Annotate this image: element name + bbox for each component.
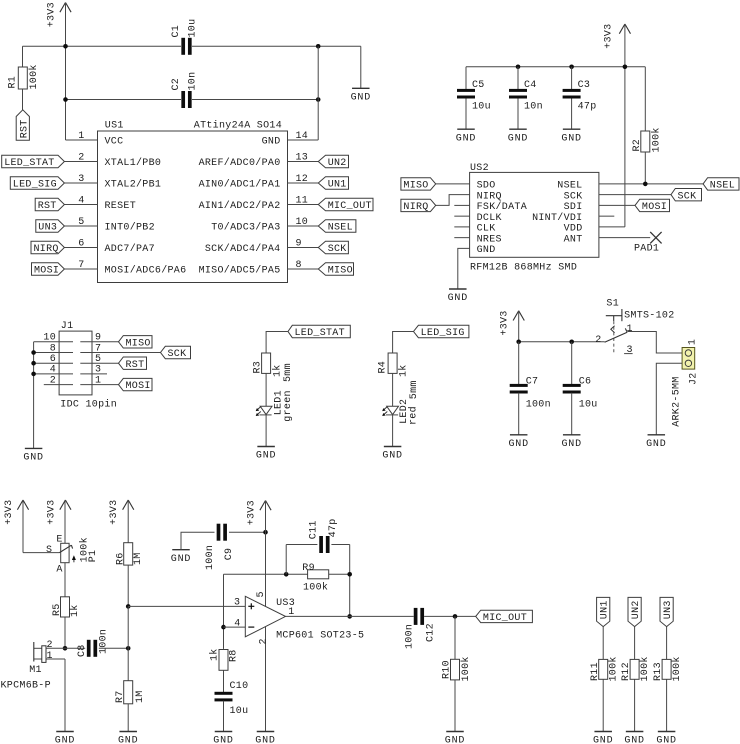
svg-text:R6: R6 [116, 552, 127, 565]
svg-text:GND: GND [656, 736, 676, 744]
svg-text:100n: 100n [404, 624, 415, 649]
svg-text:P1: P1 [88, 550, 99, 563]
wire C10 to ground [223, 701, 225, 732]
svg-text:+3V3: +3V3 [47, 2, 58, 27]
svg-text:GND: GND [448, 293, 468, 304]
svg-text:NIRQ: NIRQ [34, 244, 59, 255]
svg-text:SCK: SCK [678, 191, 697, 202]
svg-text:RST: RST [38, 201, 57, 212]
net flag NIRQ (US2 NIRQ) [436, 195, 470, 206]
wire R13 to ground [666, 679, 668, 731]
junction [221, 625, 226, 630]
svg-text:C11: C11 [308, 520, 319, 539]
net flag LED_SIG (R4 top) [414, 325, 469, 337]
wire +3V3 to US3 pin5 [265, 532, 267, 606]
svg-text:SCK: SCK [328, 244, 347, 255]
svg-text:+3V3: +3V3 [500, 310, 511, 335]
wire LED_SIG to R4 [393, 332, 414, 354]
ground [457, 128, 475, 130]
resistor R6 1M [124, 543, 133, 565]
net flag NSEL (US2) [599, 183, 703, 185]
svg-text:SDO: SDO [477, 181, 496, 192]
wire R3 to LED1 [265, 373, 267, 406]
svg-text:+3V3: +3V3 [46, 500, 57, 525]
junction [316, 97, 321, 102]
svg-text:RFM12B 868MHz SMD: RFM12B 868MHz SMD [470, 262, 577, 273]
ground [119, 731, 137, 733]
svg-text:R5: R5 [52, 603, 63, 616]
svg-text:AREF/ADC0/PA0: AREF/ADC0/PA0 [199, 157, 281, 169]
svg-text:GND: GND [593, 736, 613, 744]
junction [284, 572, 289, 577]
wire LED_STAT to R3 [266, 332, 288, 354]
svg-text:LED_SIG: LED_SIG [13, 180, 57, 191]
svg-text:3: 3 [234, 598, 240, 609]
wire S1 pin3 stub [624, 353, 633, 355]
ground (C9) [172, 549, 190, 551]
svg-text:10u: 10u [472, 102, 491, 113]
junction [126, 646, 131, 651]
wire US2 GND pin to ground [458, 248, 470, 289]
svg-text:C5: C5 [472, 80, 485, 91]
svg-text:R10: R10 [442, 660, 453, 679]
svg-text:GND: GND [508, 133, 528, 144]
net flag MOSI (J1 pin1) [80, 384, 118, 386]
ground [658, 731, 676, 733]
wire VCC pin1 [66, 139, 98, 141]
svg-text:C6: C6 [579, 377, 592, 388]
svg-text:US1: US1 [105, 121, 124, 132]
svg-text:US2: US2 [470, 163, 489, 174]
wire unconnected stub NRES [454, 237, 469, 239]
svg-text:VCC: VCC [105, 137, 124, 148]
net flag RST (US1 pin4) [64, 204, 97, 206]
svg-text:1: 1 [627, 324, 633, 335]
svg-text:R3: R3 [252, 361, 263, 374]
resistor R9 100k [308, 570, 329, 579]
wire J1 pin10 [34, 341, 73, 343]
svg-text:R11: R11 [590, 662, 601, 681]
svg-text:R8: R8 [228, 649, 239, 662]
antenna pad PAD1 [650, 232, 661, 244]
svg-text:10u: 10u [187, 19, 198, 38]
IC US1 ATtiny24A SO14 [98, 131, 288, 283]
wire J1 ground bus [33, 342, 35, 449]
power +3V3 net (P1 S wiper) [17, 500, 23, 510]
wire S1 pin1 to J2 [628, 332, 682, 354]
wire R10 to ground [454, 680, 456, 732]
junction [643, 182, 648, 187]
svg-text:C8: C8 [77, 644, 88, 657]
net flag SCK (US1 pin9) [288, 247, 319, 249]
junction [569, 340, 574, 345]
junction [623, 65, 628, 70]
wire feedback top [224, 573, 308, 575]
svg-text:10n: 10n [187, 72, 198, 91]
wire GND pin14 [317, 46, 319, 140]
wire US3 output [286, 615, 414, 617]
svg-text:UN1: UN1 [328, 180, 347, 191]
capacitor C8 100n [65, 647, 85, 649]
svg-text:A: A [56, 564, 62, 575]
svg-text:GND: GND [213, 736, 233, 744]
svg-text:green: green [283, 390, 294, 422]
wire P1 to R5 [64, 563, 66, 597]
svg-text:MIC_OUT: MIC_OUT [328, 201, 372, 212]
svg-text:LED_STAT: LED_STAT [295, 328, 345, 339]
wire +3V3 bus (US2 decoupling) [466, 66, 645, 68]
svg-text:UN3: UN3 [663, 600, 674, 619]
svg-text:SCK: SCK [168, 349, 187, 360]
svg-text:R7: R7 [115, 690, 126, 703]
svg-text:C1: C1 [171, 25, 182, 38]
svg-text:+3V3: +3V3 [109, 500, 120, 525]
svg-text:5mm: 5mm [409, 380, 420, 399]
ground [626, 731, 644, 733]
svg-text:GND: GND [23, 453, 43, 464]
wire J1 pin3 stub [80, 373, 107, 375]
wire +3V3 to switch [519, 341, 605, 343]
ground [25, 447, 42, 449]
wire R8 to C10 [223, 670, 225, 692]
resistor R13 100k [662, 659, 671, 679]
ground [449, 288, 467, 290]
svg-text:NSEL: NSEL [557, 181, 582, 192]
power +3V3 net (P1 E) [60, 500, 66, 510]
svg-text:100k: 100k [28, 64, 40, 89]
wire unconnected stub NINT/VDI [599, 215, 614, 217]
svg-text:GND: GND [55, 736, 75, 744]
junction [63, 44, 68, 49]
net flag MISO (US2 SDO) [436, 183, 470, 185]
svg-text:MISO/ADC5/PA5: MISO/ADC5/PA5 [199, 265, 281, 277]
ground [56, 731, 74, 733]
ground [510, 434, 528, 436]
capacitor C6 10u [571, 342, 573, 385]
svg-text:ADC7/PA7: ADC7/PA7 [105, 243, 155, 255]
svg-text:SCK: SCK [564, 191, 583, 202]
svg-text:1: 1 [687, 339, 698, 345]
resistor R4 1k [388, 353, 397, 373]
ground [215, 731, 233, 733]
svg-text:100k: 100k [460, 656, 472, 681]
svg-text:MOSI/ADC6/PA6: MOSI/ADC6/PA6 [105, 265, 187, 277]
svg-text:14: 14 [296, 131, 309, 142]
capacitor C1 10u [181, 38, 185, 55]
ground [509, 128, 527, 130]
svg-text:GND: GND [561, 133, 581, 144]
svg-text:XTAL2/PB1: XTAL2/PB1 [105, 179, 162, 191]
svg-text:5: 5 [256, 591, 267, 597]
svg-text:R12: R12 [621, 662, 632, 681]
svg-text:1: 1 [78, 131, 84, 142]
wire unconnected stub DCLK [454, 215, 469, 217]
ground [563, 128, 581, 130]
power +3V3 net (R6) [123, 500, 129, 510]
svg-text:C7: C7 [526, 377, 539, 388]
junction [347, 614, 352, 619]
svg-text:SMTS-102: SMTS-102 [624, 311, 674, 322]
net flag MIC_OUT (output) [476, 610, 533, 622]
wire feedback right leg [349, 545, 351, 617]
svg-text:100n: 100n [205, 545, 216, 570]
junction [516, 340, 521, 345]
capacitor C4 10n [517, 67, 519, 89]
wire to ground (top) [360, 46, 362, 88]
svg-text:GND: GND [445, 736, 465, 744]
net flag UN3 (US1 pin5) [64, 225, 97, 227]
svg-text:RST: RST [126, 360, 145, 371]
wire unconnected stub CLK [454, 226, 469, 228]
capacitor C12 100n [414, 608, 418, 625]
svg-text:MIC_OUT: MIC_OUT [483, 613, 527, 624]
wire + input [128, 605, 245, 607]
svg-text:GND: GND [171, 554, 191, 565]
net flag SCK (US2) [599, 194, 671, 196]
resistor R5 1k [61, 597, 70, 617]
junction [63, 646, 68, 651]
svg-text:GND: GND [382, 451, 402, 462]
svg-text:C12: C12 [426, 623, 437, 642]
junction [263, 530, 268, 535]
wire R4 to LED2 [392, 373, 394, 406]
svg-text:NSEL: NSEL [710, 181, 735, 192]
svg-text:ARK2-5MM: ARK2-5MM [672, 376, 683, 426]
net flag NIRQ (US1 pin6) [64, 247, 97, 249]
capacitor C2 10n [181, 91, 185, 108]
svg-text:MOSI: MOSI [642, 202, 667, 213]
junction [126, 604, 131, 609]
junction [31, 350, 36, 355]
wire + input node down to C8 node [127, 606, 129, 648]
svg-text:NSEL: NSEL [328, 223, 353, 234]
svg-text:AIN1/ADC2/PA2: AIN1/ADC2/PA2 [199, 200, 281, 212]
wire R6 to + input node [127, 565, 129, 606]
svg-text:GND: GND [561, 439, 581, 450]
wire R7 to ground [127, 704, 129, 732]
svg-text:DCLK: DCLK [477, 213, 502, 224]
svg-text:1M: 1M [135, 690, 146, 703]
capacitor C11 47p [286, 544, 317, 546]
svg-text:M1: M1 [29, 665, 42, 676]
net flag LED_SIG (US1 pin3) [64, 182, 97, 184]
svg-text:LED_STAT: LED_STAT [4, 158, 54, 169]
svg-text:US3: US3 [276, 598, 295, 609]
svg-text:red: red [407, 406, 419, 425]
power +3V3 net (switch rail) [513, 311, 519, 321]
ground [384, 446, 402, 448]
svg-text:SCK/ADC4/PA4: SCK/ADC4/PA4 [205, 243, 281, 255]
svg-text:1: 1 [47, 651, 53, 662]
svg-text:+3V3: +3V3 [603, 24, 614, 49]
net flag RST (below R1) [16, 110, 29, 141]
ground [257, 731, 275, 733]
svg-text:GND: GND [255, 736, 275, 744]
svg-text:INT0/PB2: INT0/PB2 [105, 222, 155, 234]
capacitor C10 10u [215, 692, 233, 695]
resistor R1 100k [22, 46, 24, 67]
resistor R7 1M [127, 648, 129, 680]
net flag UN1 (US1 pin12) [288, 182, 319, 184]
wire UN3 to R13 [666, 627, 668, 660]
svg-text:4: 4 [234, 618, 240, 629]
ground [446, 731, 464, 733]
junction [569, 65, 574, 70]
svg-text:2: 2 [259, 638, 270, 644]
svg-text:100n: 100n [526, 400, 551, 411]
svg-text:C9: C9 [224, 548, 235, 561]
junction [63, 97, 68, 102]
wire GND rail [66, 99, 182, 101]
wire UN2 to R12 [634, 627, 636, 660]
svg-text:100k: 100k [303, 582, 328, 594]
svg-text:5mm: 5mm [283, 363, 294, 382]
junction [453, 614, 458, 619]
net flag RST (J1 pin5) [80, 362, 118, 364]
svg-text:J1: J1 [61, 321, 74, 332]
svg-text:C3: C3 [578, 80, 591, 91]
svg-text:R13: R13 [653, 662, 664, 681]
svg-text:PAD1: PAD1 [634, 244, 659, 255]
junction [347, 572, 352, 577]
resistor R12 100k [630, 659, 639, 679]
power +3V3 net (US1 VCC rail) [60, 3, 66, 13]
wire - input [224, 626, 246, 628]
net flag UN2 (US1 pin13) [288, 161, 319, 163]
svg-text:100k: 100k [671, 656, 683, 681]
ground [594, 731, 612, 733]
connector J1 IDC 10pin [59, 331, 92, 395]
wire VDD to +3V3 [599, 226, 625, 228]
capacitor C5 10u [465, 67, 467, 89]
net flag MOSI (US1 pin7) [64, 268, 97, 270]
IC US2 RFM12B 868MHz SMD [470, 172, 599, 257]
connector J2 ARK2-5MM (highlighted) [682, 348, 695, 370]
wire J1 pin4 [34, 373, 73, 375]
svg-text:NIRQ: NIRQ [403, 202, 428, 213]
wire US3 pin2 to ground [265, 626, 267, 731]
wire C12 to MIC_OUT [424, 615, 476, 617]
svg-text:GND: GND [351, 93, 371, 104]
wire ANT to PAD1 [599, 237, 650, 239]
svg-text:C4: C4 [524, 80, 537, 91]
svg-text:NINT/VDI: NINT/VDI [532, 212, 582, 224]
svg-text:CLK: CLK [477, 224, 496, 235]
potentiometer P1 100k [61, 543, 69, 562]
svg-text:GND: GND [456, 133, 476, 144]
svg-text:100n: 100n [99, 629, 110, 654]
ground [563, 434, 581, 436]
svg-text:1k: 1k [397, 364, 409, 377]
wire J2 pin2 to ground [656, 363, 682, 435]
svg-text:IDC 10pin: IDC 10pin [60, 398, 117, 410]
net flag MIC_OUT (US1 pin11) [288, 204, 319, 206]
svg-text:S1: S1 [606, 298, 619, 309]
ground [648, 434, 666, 436]
svg-text:+3V3: +3V3 [4, 500, 15, 525]
svg-text:47p: 47p [328, 518, 339, 537]
net flag NSEL (US1 pin10) [288, 225, 319, 227]
svg-text:1k: 1k [209, 648, 221, 661]
wire to P1 wiper [23, 552, 60, 554]
svg-text:RESET: RESET [105, 201, 137, 212]
wire R5 to mic node [64, 617, 66, 648]
svg-text:ATtiny24A SO14: ATtiny24A SO14 [194, 120, 282, 132]
svg-text:UN1: UN1 [600, 600, 611, 619]
svg-text:GND: GND [477, 245, 496, 256]
svg-text:C10: C10 [230, 681, 249, 692]
svg-text:3: 3 [627, 345, 633, 356]
net flag SCK (J1 pin7) [80, 352, 160, 354]
svg-text:R2: R2 [632, 139, 643, 152]
svg-text:UN2: UN2 [328, 158, 347, 169]
svg-text:S: S [46, 545, 52, 556]
svg-text:E: E [56, 534, 62, 545]
svg-text:MOSI: MOSI [34, 266, 59, 277]
svg-text:GND: GND [646, 439, 666, 450]
wire - input feedback node [223, 574, 225, 649]
capacitor C9 100n [181, 532, 215, 550]
wire R11 to ground [602, 679, 604, 731]
svg-text:R4: R4 [378, 361, 389, 374]
svg-text:2: 2 [595, 335, 601, 346]
svg-text:100k: 100k [651, 127, 663, 152]
svg-text:MISO: MISO [126, 338, 151, 349]
svg-text:UN2: UN2 [631, 600, 642, 619]
svg-text:R9: R9 [302, 563, 315, 574]
wire unconnected stub FSK/DATA [454, 204, 469, 206]
junction [316, 44, 321, 49]
LED LED1 green 5mm [260, 406, 272, 414]
wire J1 pin2 stub [44, 384, 73, 386]
svg-text:47p: 47p [578, 102, 597, 113]
resistor R3 1k [262, 353, 271, 373]
svg-text:MISO: MISO [403, 181, 428, 192]
net flag MOSI (US2 SDI) [599, 204, 635, 206]
LED LED2 red 5mm [387, 406, 399, 414]
svg-text:100k: 100k [608, 656, 620, 681]
junction [31, 361, 36, 366]
svg-text:RST: RST [19, 119, 30, 138]
junction [516, 65, 521, 70]
svg-text:FSK/DATA: FSK/DATA [477, 201, 527, 213]
capacitor C3 47p [571, 67, 573, 89]
net flag MISO (US1 pin8) [288, 268, 319, 270]
svg-text:GND: GND [508, 439, 528, 450]
svg-text:J2: J2 [689, 372, 700, 385]
wire J1 pin8 [34, 352, 73, 354]
svg-text:GND: GND [118, 736, 138, 744]
svg-text:10u: 10u [230, 706, 249, 717]
svg-text:1M: 1M [133, 552, 144, 565]
net flag UN2 (top of R12) [628, 597, 641, 626]
wire LED1 to ground [265, 415, 267, 447]
op-amp US3 MCP601 SOT23-5 [245, 596, 285, 637]
net flag UN1 (top of R11) [597, 597, 610, 626]
svg-text:MOSI: MOSI [126, 381, 151, 392]
resistor R2 100k [644, 67, 646, 131]
svg-text:GND: GND [262, 137, 281, 148]
svg-text:GND: GND [624, 736, 644, 744]
resistor R10 100k [454, 616, 456, 659]
capacitor C7 100n [518, 342, 520, 385]
svg-text:MISO: MISO [328, 266, 353, 277]
svg-text:SDI: SDI [564, 202, 583, 213]
svg-text:10n: 10n [524, 102, 543, 113]
power +3V3 net (US2 rail) [619, 24, 625, 34]
svg-text:2: 2 [47, 640, 53, 651]
microphone M1 KPCM6B-P [46, 647, 65, 649]
